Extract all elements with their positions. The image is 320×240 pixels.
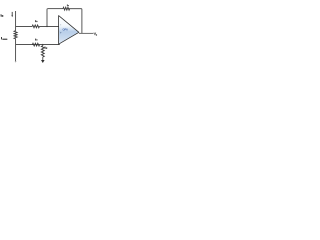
label R3 bbox=[34, 39, 37, 41]
resistor R3 (horizontal, non-inverting path) bbox=[32, 43, 39, 46]
wire: R1 to op-amp inverting input bbox=[39, 25, 58, 27]
node: feedback junction bbox=[46, 26, 48, 28]
label R1 bbox=[34, 20, 37, 22]
label RSOURCE bbox=[0, 37, 3, 39]
resistor R2 (feedback) bbox=[63, 7, 70, 10]
label R4 bbox=[44, 47, 47, 49]
minus input mark bbox=[60, 24, 61, 26]
wire: branch to inverting input bbox=[16, 25, 33, 27]
label IIN bbox=[0, 14, 2, 16]
wire: feedback riser bbox=[46, 9, 49, 27]
op-amp U1 bbox=[59, 16, 79, 45]
resistor RSOURCE (vertical on input rail) bbox=[14, 31, 17, 39]
wire: feedback top bbox=[48, 8, 63, 10]
wire: input rail top bbox=[15, 11, 17, 31]
wire: output bbox=[79, 32, 94, 34]
wire: input rail bottom bbox=[15, 39, 17, 61]
ground arrow (input rail) bbox=[15, 61, 17, 63]
ground arrow (R4) bbox=[41, 60, 45, 63]
label VO bbox=[94, 33, 96, 35]
plus input mark bbox=[60, 32, 62, 34]
resistor R4 (vertical to ground) bbox=[41, 46, 44, 57]
label R2 bbox=[66, 5, 69, 7]
svg-text:OPA: OPA bbox=[63, 28, 69, 32]
resistor R1 (horizontal, inverting path) bbox=[32, 25, 39, 28]
wire: R4 to ground bbox=[42, 57, 44, 60]
current arrow IIN bbox=[11, 12, 13, 16]
node: R4 junction bbox=[42, 44, 43, 45]
wire: bottom rail to non-inverting input bbox=[16, 44, 60, 46]
wire: feedback to output bbox=[69, 9, 82, 33]
wire: stub to R4 bbox=[42, 45, 44, 46]
